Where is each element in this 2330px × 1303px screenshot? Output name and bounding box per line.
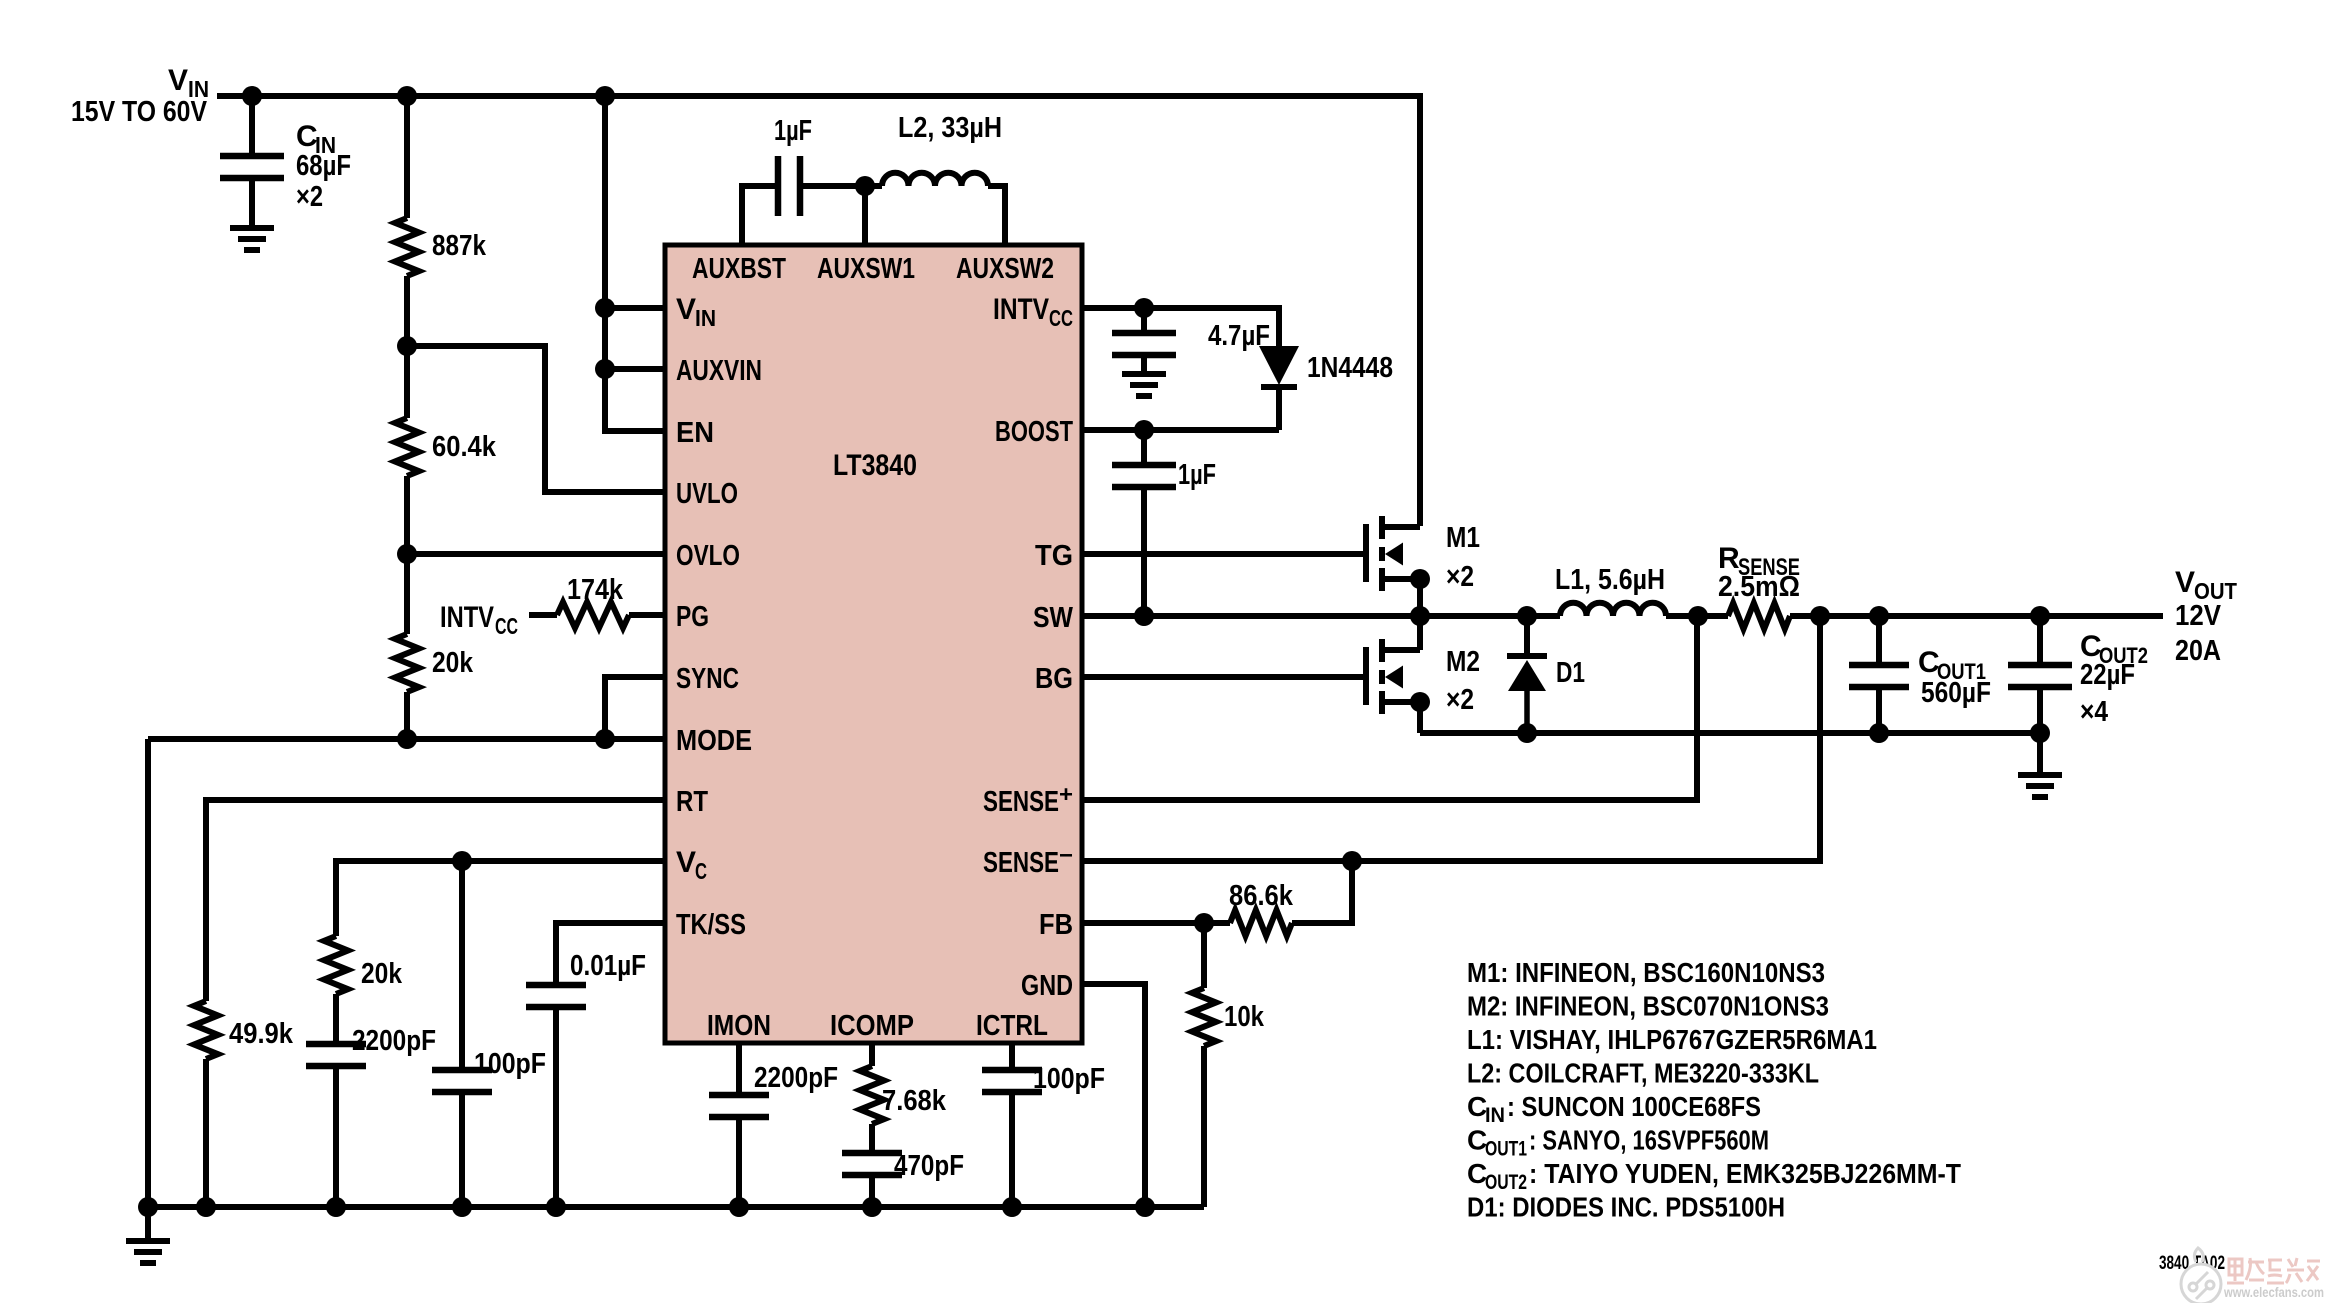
resistor 174k bbox=[557, 602, 629, 628]
inductor L2 bbox=[865, 183, 882, 189]
svg-text:D1: DIODES INC. PDS5100H: D1: DIODES INC. PDS5100H bbox=[1467, 1192, 1785, 1223]
svg-text:−: − bbox=[1059, 842, 1073, 868]
wire 86.6k to SENSE- bbox=[1292, 861, 1352, 923]
wire VC bbox=[336, 861, 665, 936]
svg-text:V: V bbox=[676, 293, 696, 326]
wire MODE down to ground rail bbox=[145, 739, 151, 1207]
wire ground rail bbox=[148, 1204, 1204, 1210]
svg-text:: TAIYO YUDEN, EMK325BJ226MM-T: : TAIYO YUDEN, EMK325BJ226MM-T bbox=[1529, 1158, 1961, 1189]
node 887k tap bbox=[397, 86, 417, 106]
svg-text:20A: 20A bbox=[2175, 635, 2221, 667]
wire 4.7uF bottom lead bbox=[1141, 355, 1147, 374]
wire IMON bbox=[736, 1043, 742, 1095]
wire to 887k bbox=[404, 96, 410, 218]
svg-text:M2: INFINEON, BSC070N1ONS3: M2: INFINEON, BSC070N1ONS3 bbox=[1467, 991, 1829, 1022]
wire UVLO link bbox=[407, 346, 665, 492]
svg-text:GND: GND bbox=[1021, 970, 1073, 1002]
svg-text:BG: BG bbox=[1035, 663, 1073, 695]
svg-text:+: + bbox=[1059, 781, 1073, 807]
capacitor 4.7uF bbox=[1112, 333, 1176, 355]
wire L2 to AUXSW2 bbox=[988, 186, 1005, 245]
svg-text:FB: FB bbox=[1039, 909, 1073, 941]
capacitor COUT1 top lead bbox=[1876, 616, 1882, 665]
svg-text:ICTRL: ICTRL bbox=[976, 1010, 1048, 1042]
transistor M2 bbox=[1366, 639, 1420, 714]
svg-text:ICOMP: ICOMP bbox=[830, 1010, 914, 1042]
svg-text:V: V bbox=[2175, 566, 2195, 599]
svg-text:AUXSW1: AUXSW1 bbox=[817, 253, 915, 285]
svg-text:20k: 20k bbox=[432, 647, 474, 679]
capacitor 2200pF comp bbox=[306, 1044, 366, 1066]
svg-text:100pF: 100pF bbox=[1033, 1063, 1105, 1095]
svg-text:×2: ×2 bbox=[1446, 684, 1474, 716]
svg-text:0.01µF: 0.01µF bbox=[570, 950, 646, 982]
resistor 86.6k bbox=[1230, 910, 1292, 936]
diode 1N4448 bbox=[1259, 346, 1299, 385]
node COUT1 top bbox=[1869, 606, 1889, 626]
resistor 10k bbox=[1201, 923, 1207, 988]
wire INTVCC-174k bbox=[529, 612, 557, 618]
svg-text:470pF: 470pF bbox=[894, 1150, 964, 1182]
op-amp U1 LT3840 controller IC body bbox=[665, 245, 1082, 1043]
svg-text:100pF: 100pF bbox=[474, 1048, 546, 1080]
wire ICTRL bbox=[1009, 1043, 1015, 1070]
watermark text bbox=[2227, 1258, 2320, 1283]
svg-text:www.elecfans.com: www.elecfans.com bbox=[2223, 1284, 2324, 1300]
svg-text:V: V bbox=[676, 846, 696, 879]
svg-text:PG: PG bbox=[676, 601, 709, 633]
svg-text:×2: ×2 bbox=[296, 181, 323, 213]
node VIN input bbox=[242, 86, 262, 106]
inductor L1 bbox=[1560, 603, 1666, 616]
wire BG bbox=[1080, 674, 1366, 680]
ground main bbox=[126, 1241, 170, 1263]
node M2 source bbox=[1410, 692, 1430, 712]
resistor 49.9k bbox=[194, 1001, 218, 1059]
svg-text:2200pF: 2200pF bbox=[754, 1062, 838, 1094]
svg-text:887k: 887k bbox=[432, 230, 487, 262]
wire FB bbox=[1080, 920, 1230, 926]
node SW-1uF bbox=[1134, 606, 1154, 626]
wire diode to BOOST bbox=[1276, 387, 1282, 430]
svg-text:AUXBST: AUXBST bbox=[692, 253, 786, 285]
wire 20k bottom bbox=[404, 692, 410, 739]
watermark logo bbox=[2181, 1248, 2221, 1303]
svg-text:: SUNCON 100CE68FS: : SUNCON 100CE68FS bbox=[1507, 1091, 1761, 1122]
svg-text:C: C bbox=[695, 858, 707, 884]
capacitor 100pF comp bbox=[432, 1070, 492, 1092]
svg-text:TG: TG bbox=[1035, 540, 1073, 572]
svg-text:L1, 5.6µH: L1, 5.6µH bbox=[1555, 564, 1665, 596]
transistor M1 bbox=[1366, 516, 1420, 591]
svg-text:×4: ×4 bbox=[2080, 696, 2108, 728]
node rail-470pF bbox=[862, 1197, 882, 1217]
wire SW bbox=[1080, 613, 1560, 619]
svg-text:7.68k: 7.68k bbox=[882, 1085, 947, 1117]
node rail-ICTRL bbox=[1002, 1197, 1022, 1217]
wire ICOMP bbox=[869, 1043, 875, 1066]
wire VIN pin bbox=[605, 305, 665, 311]
diode D1 bbox=[1507, 653, 1547, 659]
node SW-D1 bbox=[1517, 606, 1537, 626]
capacitor COUT1 bottom lead bbox=[1876, 687, 1882, 733]
capacitor COUT2 bbox=[2008, 665, 2072, 687]
wire AUXSW1 down bbox=[862, 186, 868, 245]
svg-text:86.6k: 86.6k bbox=[1229, 880, 1294, 912]
node rail-mode bbox=[138, 1197, 158, 1217]
wire 174k-PG bbox=[629, 612, 665, 618]
wire D1 cathode lead bbox=[1524, 616, 1530, 656]
ground 4.7uF bbox=[1122, 374, 1166, 396]
svg-text:2200pF: 2200pF bbox=[352, 1025, 436, 1057]
resistor 887k bbox=[395, 218, 419, 276]
resistor 60.4k bbox=[395, 418, 419, 476]
svg-text:1µF: 1µF bbox=[774, 115, 812, 147]
wire BOOST bbox=[1080, 427, 1279, 433]
wire M1 source to SW bbox=[1417, 579, 1423, 616]
svg-text:M2: M2 bbox=[1446, 646, 1480, 678]
wire OVLO bbox=[407, 551, 665, 557]
svg-text:AUXVIN: AUXVIN bbox=[676, 355, 762, 387]
svg-text:RT: RT bbox=[676, 786, 708, 818]
node MODE-SYNC bbox=[595, 729, 615, 749]
svg-text:UVLO: UVLO bbox=[676, 478, 738, 510]
svg-text:BOOST: BOOST bbox=[995, 416, 1073, 448]
node rail-2200pF bbox=[326, 1197, 346, 1217]
node rail-100pF bbox=[452, 1197, 472, 1217]
svg-text:M1: M1 bbox=[1446, 522, 1480, 554]
svg-text:IN: IN bbox=[695, 305, 716, 331]
wire MODE bbox=[148, 736, 665, 742]
svg-text:IN: IN bbox=[1485, 1104, 1505, 1127]
capacitor 100pF ICTRL bbox=[982, 1070, 1042, 1092]
wire COUT2 ground stem bbox=[2037, 733, 2043, 775]
wire 7.68k-470pF bbox=[869, 1124, 875, 1153]
node rail-0.01uF bbox=[546, 1197, 566, 1217]
node RSENSE-SENSE- bbox=[1810, 606, 1830, 626]
capacitor 1uF boost bbox=[1112, 465, 1176, 487]
node OVLO divider tap bbox=[397, 544, 417, 564]
wire GND pin to rail bbox=[1080, 984, 1145, 1207]
wire TG bbox=[1080, 551, 1366, 557]
svg-text:174k: 174k bbox=[567, 574, 624, 606]
node rail-GND bbox=[1135, 1197, 1155, 1217]
wire 470pF to rail bbox=[869, 1175, 875, 1207]
svg-text:15V TO 60V: 15V TO 60V bbox=[71, 96, 208, 128]
resistor 20k divider bbox=[395, 634, 419, 692]
node rail-49.9k bbox=[196, 1197, 216, 1217]
wire 887k-60.4k bbox=[404, 276, 410, 418]
capacitor CIN bottom lead bbox=[249, 178, 255, 228]
svg-text:CC: CC bbox=[1049, 305, 1073, 331]
resistor 7.68k bbox=[860, 1066, 884, 1124]
capacitor COUT1 bbox=[1849, 665, 1909, 687]
wire SYNC link bbox=[605, 677, 665, 739]
svg-text:: SANYO, 16SVPF560M: : SANYO, 16SVPF560M bbox=[1529, 1125, 1769, 1156]
wire SW to M2 drain bbox=[1417, 616, 1423, 650]
capacitor CIN top lead bbox=[249, 96, 255, 156]
svg-text:L2, 33µH: L2, 33µH bbox=[898, 112, 1002, 144]
wire AUXBST up bbox=[742, 186, 778, 245]
wire 20k-2200pF bbox=[333, 994, 339, 1044]
svg-text:OUT1: OUT1 bbox=[1485, 1138, 1527, 1161]
node AUXVIN tap bbox=[595, 359, 615, 379]
node INTVCC bbox=[1134, 298, 1154, 318]
wire SENSE+ bbox=[1080, 616, 1697, 800]
svg-text:68µF: 68µF bbox=[296, 150, 351, 182]
svg-text:×2: ×2 bbox=[1446, 561, 1474, 593]
svg-text:M1: INFINEON, BSC160N10NS3: M1: INFINEON, BSC160N10NS3 bbox=[1467, 957, 1825, 988]
capacitor 0.01uF bbox=[526, 985, 586, 1007]
wire 1uF top lead bbox=[1141, 430, 1147, 465]
resistor RSENSE bbox=[1666, 613, 1728, 619]
svg-text:V: V bbox=[168, 64, 188, 97]
svg-text:MODE: MODE bbox=[676, 725, 752, 757]
svg-text:20k: 20k bbox=[361, 958, 403, 990]
node MODE-20k bbox=[397, 729, 417, 749]
wire 0.01uF to rail bbox=[553, 1007, 559, 1207]
wire 1uF to SW bbox=[1141, 487, 1147, 616]
node VIN riser bbox=[595, 86, 615, 106]
svg-text:22µF: 22µF bbox=[2080, 659, 2135, 691]
svg-text:L2: COILCRAFT, ME3220-333KL: L2: COILCRAFT, ME3220-333KL bbox=[1467, 1058, 1819, 1089]
svg-text:1µF: 1µF bbox=[1178, 459, 1216, 491]
svg-text:INTV: INTV bbox=[993, 293, 1049, 326]
capacitor 1uF aux bbox=[778, 156, 800, 216]
ground CIN bbox=[230, 228, 274, 250]
svg-text:L1: VISHAY, IHLP6767GZER5R6MA1: L1: VISHAY, IHLP6767GZER5R6MA1 bbox=[1467, 1024, 1877, 1055]
svg-text:INTV: INTV bbox=[440, 601, 494, 634]
svg-text:LT3840: LT3840 bbox=[833, 449, 917, 482]
wire SENSE- bbox=[1080, 616, 1820, 861]
wire TK/SS bbox=[556, 923, 665, 985]
svg-text:10k: 10k bbox=[1224, 1001, 1265, 1033]
wire VIN rail bbox=[217, 96, 1420, 526]
svg-text:IMON: IMON bbox=[707, 1010, 771, 1042]
resistor 20k comp bbox=[324, 936, 348, 994]
node rail-IMON bbox=[729, 1197, 749, 1217]
svg-text:12V: 12V bbox=[2175, 600, 2222, 632]
svg-text:D1: D1 bbox=[1556, 657, 1585, 689]
wire M2 source down bbox=[1417, 702, 1423, 733]
svg-text:SW: SW bbox=[1033, 602, 1074, 634]
wire VC-100pF down bbox=[459, 861, 465, 1070]
wire power ground return bbox=[1420, 730, 2040, 736]
svg-text:SENSE: SENSE bbox=[983, 786, 1059, 818]
svg-text:AUXSW2: AUXSW2 bbox=[956, 253, 1054, 285]
svg-text:EN: EN bbox=[676, 417, 714, 449]
node M1 source bbox=[1410, 569, 1430, 589]
node UVLO divider tap bbox=[397, 336, 417, 356]
node COUT2 bottom bbox=[2030, 723, 2050, 743]
node BOOST-1uF bbox=[1134, 420, 1154, 440]
svg-text:560µF: 560µF bbox=[1921, 677, 1991, 709]
wire 100pF to rail bbox=[459, 1092, 465, 1207]
svg-text:2.5mΩ: 2.5mΩ bbox=[1718, 571, 1800, 603]
ground output bbox=[2018, 775, 2062, 797]
svg-text:SYNC: SYNC bbox=[676, 663, 739, 695]
node VC-100pF bbox=[452, 851, 472, 871]
node FB-10k bbox=[1194, 913, 1214, 933]
svg-text:49.9k: 49.9k bbox=[229, 1018, 294, 1050]
capacitor 2200pF IMON bbox=[709, 1095, 769, 1117]
capacitor CIN bbox=[220, 156, 284, 178]
svg-text:OVLO: OVLO bbox=[676, 540, 740, 572]
capacitor COUT2 bottom lead bbox=[2037, 687, 2043, 733]
node COUT1 bottom bbox=[1869, 723, 1889, 743]
capacitor 470pF bbox=[842, 1153, 902, 1175]
wire IMON cap to rail bbox=[736, 1117, 742, 1207]
wire 4.7uF top lead bbox=[1141, 308, 1147, 333]
svg-text:TK/SS: TK/SS bbox=[676, 909, 746, 941]
node SW-M1M2 bbox=[1410, 606, 1430, 626]
wire INTVCC to diode bbox=[1080, 308, 1279, 346]
svg-text:SENSE: SENSE bbox=[983, 847, 1059, 879]
wire RT bbox=[206, 800, 665, 1001]
svg-text:1N4448: 1N4448 bbox=[1307, 352, 1393, 384]
node L1-RSENSE bbox=[1688, 606, 1708, 626]
wire 100pF ICTRL to rail bbox=[1009, 1092, 1015, 1207]
capacitor COUT2 top lead bbox=[2037, 616, 2043, 665]
node SENSE--86.6k bbox=[1342, 851, 1362, 871]
node D1 anode bbox=[1517, 723, 1537, 743]
wire 2200pF to rail bbox=[333, 1066, 339, 1207]
wire ground stem bbox=[145, 1207, 151, 1241]
node COUT2 top bbox=[2030, 606, 2050, 626]
wire AUXVIN pin bbox=[605, 366, 665, 372]
wire VIN riser to EN bbox=[605, 96, 665, 431]
node AUXSW1 bbox=[855, 176, 875, 196]
svg-text:CC: CC bbox=[495, 613, 518, 639]
wire 49.9k to rail bbox=[203, 1059, 209, 1207]
wire 60.4k-20k bbox=[404, 476, 410, 634]
svg-text:60.4k: 60.4k bbox=[432, 431, 497, 463]
wire 1uF to AUXSW1 bbox=[800, 183, 865, 189]
node VIN pin tap bbox=[595, 298, 615, 318]
